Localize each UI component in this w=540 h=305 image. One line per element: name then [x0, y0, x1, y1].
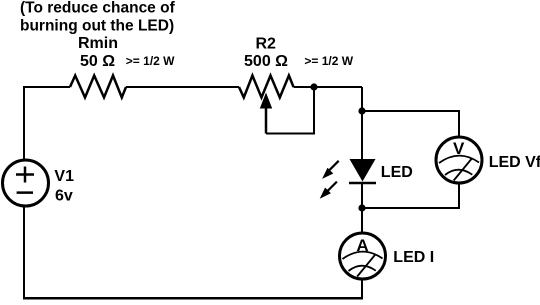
- R2 wiper loop wire: [266, 87, 314, 134]
- wire corner down to LED: [361, 87, 363, 159]
- LED D1: [349, 159, 376, 183]
- voltage source V1: [3, 160, 49, 206]
- wire ammeter to bottom: [361, 279, 363, 299]
- resistor Rmin: [70, 76, 126, 98]
- wire V1 down to bottom: [23, 207, 25, 299]
- wire LED to junction: [361, 184, 363, 209]
- bottom wire: [23, 297, 363, 300]
- junction node at R2 output: [310, 83, 317, 90]
- wire R2 to corner: [294, 86, 363, 88]
- wire junction to ammeter: [361, 208, 363, 233]
- svg-text:LED: LED: [381, 164, 413, 181]
- svg-text:LED Vf: LED Vf: [489, 154, 540, 171]
- svg-text:500 Ω: 500 Ω: [244, 53, 288, 70]
- svg-text:burning out the LED): burning out the LED): [20, 18, 174, 35]
- junction node to voltmeter branch: [358, 107, 365, 114]
- svg-text:V1: V1: [54, 168, 74, 185]
- wire top-left from V1 to Rmin: [24, 87, 70, 159]
- svg-text:50 Ω: 50 Ω: [80, 53, 115, 70]
- wire voltmeter bottom to junction: [362, 184, 459, 208]
- svg-text:>= 1/2 W: >= 1/2 W: [304, 54, 353, 68]
- wire Rmin to R2: [126, 86, 239, 88]
- svg-text:(To reduce chance of: (To reduce chance of: [20, 0, 176, 16]
- svg-text:>= 1/2 W: >= 1/2 W: [126, 54, 175, 68]
- voltmeter U1: [436, 137, 482, 183]
- LED light arrow 2: [320, 182, 337, 199]
- LED light arrow 1: [322, 161, 339, 179]
- svg-text:6v: 6v: [55, 188, 73, 205]
- potentiometer R2: [239, 76, 294, 98]
- svg-text:Rmin: Rmin: [78, 35, 118, 52]
- svg-text:R2: R2: [255, 35, 276, 52]
- ammeter U2: [340, 233, 386, 279]
- R2 wiper stem: [265, 106, 268, 134]
- R2 wiper arrow: [260, 93, 272, 109]
- svg-text:LED I: LED I: [393, 249, 434, 266]
- wire to voltmeter top: [362, 111, 459, 137]
- junction node below LED: [358, 204, 365, 211]
